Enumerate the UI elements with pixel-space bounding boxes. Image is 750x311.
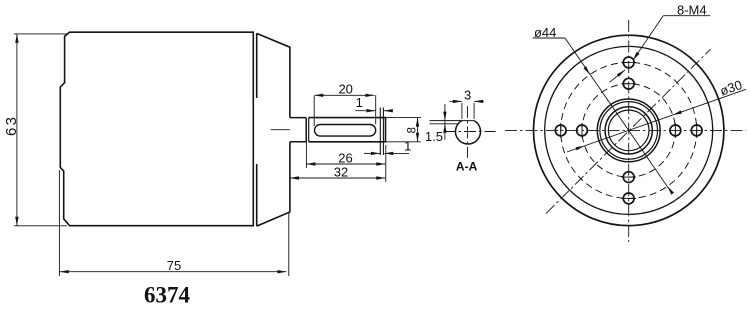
hole M4 left inner — [577, 125, 588, 136]
vertical centerline — [628, 20, 630, 242]
dim 20 line — [314, 94, 374, 96]
dim 26 line — [306, 163, 385, 165]
hub circle 3 — [605, 107, 652, 154]
svg-text:A-A: A-A — [456, 159, 478, 173]
dim 75 extension lines — [58, 170, 60, 276]
dim 3 line — [450, 100, 462, 102]
diagonal 45 centerline — [546, 49, 710, 213]
shaft end circlip groove — [379, 108, 381, 156]
horizontal centerline — [505, 129, 746, 131]
dim 32 line — [290, 177, 385, 179]
svg-text:75: 75 — [167, 258, 181, 273]
section A-A horizontal centerline — [444, 131, 496, 133]
end cap left edge — [256, 33, 258, 98]
dim 8 line — [417, 118, 419, 142]
dim 1 lower line — [364, 152, 380, 154]
svg-text:1.5: 1.5 — [425, 129, 443, 144]
shaft outline — [309, 118, 386, 142]
motor body side view outline — [60, 32, 253, 226]
dim 3 extension lines — [461, 103, 463, 119]
shaft flat slot — [315, 124, 376, 136]
hub circle outer — [597, 99, 660, 162]
dim 8 extension lines — [386, 117, 421, 119]
svg-text:3: 3 — [464, 88, 471, 103]
svg-text:26: 26 — [338, 151, 352, 166]
dim dia44 line — [565, 38, 672, 193]
shaft boss — [290, 118, 306, 142]
leader 8-M4 lower stub — [609, 70, 625, 82]
svg-text:1: 1 — [356, 95, 363, 110]
dim 75 line — [60, 271, 287, 273]
svg-text:8: 8 — [407, 127, 419, 133]
dim 20 extension lines — [313, 96, 315, 126]
hub circle 4 — [608, 110, 649, 151]
hole M4 top outer — [623, 57, 634, 68]
svg-text:32: 32 — [334, 165, 348, 180]
end cap right trapezoid — [257, 33, 290, 226]
dim 1.5 line — [444, 104, 446, 140]
hole M4 left outer — [555, 125, 566, 136]
section A-A vertical centerline — [467, 106, 469, 158]
hub circle 2 — [600, 102, 658, 160]
front view outer circle — [534, 35, 724, 225]
dim 63 extension lines — [14, 33, 67, 35]
shaft centerline stub — [271, 129, 290, 131]
dim 26 extension line — [305, 142, 307, 168]
svg-text:8-M4: 8-M4 — [677, 2, 707, 17]
bolt circle dia44 dashed — [561, 62, 697, 198]
dim 1 upper line — [355, 110, 375, 112]
svg-text:20: 20 — [338, 81, 352, 96]
section A-A lower extension line — [430, 123, 459, 125]
svg-text:6374: 6374 — [144, 283, 191, 306]
shaft root groove — [305, 118, 307, 142]
hole M4 top inner — [623, 78, 634, 89]
hole M4 bottom inner — [623, 172, 634, 183]
front view rim circle — [545, 46, 713, 214]
section A-A shaft circle with flat — [456, 121, 481, 144]
svg-text:1: 1 — [404, 138, 411, 153]
hole M4 bottom outer — [623, 193, 634, 204]
leader 8-M4 line — [633, 16, 663, 61]
svg-text:ø44: ø44 — [534, 25, 556, 40]
dim dia30 line — [567, 89, 746, 152]
hole M4 right inner — [670, 125, 681, 136]
section A-A flat chord line — [430, 120, 475, 122]
dim 63 line — [16, 34, 18, 226]
hole M4 right outer — [691, 125, 702, 136]
dim dia44 leader landing — [533, 37, 565, 39]
bolt circle dia30 dashed — [582, 84, 675, 177]
